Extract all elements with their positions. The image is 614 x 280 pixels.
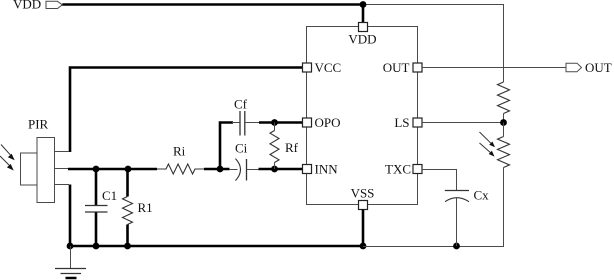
IC U1 body — [307, 27, 418, 205]
svg-text:OPO: OPO — [315, 115, 341, 130]
wire VDD pin drop — [362, 5, 365, 24]
wire pull-up to LS junction — [503, 114, 505, 123]
wire PIR bottom pin stub — [55, 184, 70, 186]
pin square VCC — [303, 63, 312, 72]
wire VCC rail (thick L from PIR to VCC) — [70, 68, 303, 153]
ground rail (thick) — [69, 245, 364, 248]
svg-text:VDD: VDD — [348, 32, 376, 47]
wire PIR bottom pin to ground rail — [69, 185, 72, 247]
wire branch up to Cf (thick) — [220, 123, 233, 170]
capacitor C1 — [85, 206, 108, 213]
light arrow 1 into LDR — [480, 132, 496, 147]
ground symbol — [55, 246, 86, 278]
svg-text:Cf: Cf — [234, 97, 248, 112]
svg-text:INN: INN — [315, 161, 339, 176]
sensor PIR window — [21, 153, 38, 185]
svg-text:VCC: VCC — [315, 60, 342, 75]
wire LS junction to LDR — [503, 123, 505, 137]
node C1 ground junction — [93, 243, 100, 250]
resistor Ri — [157, 164, 204, 174]
svg-text:PIR: PIR — [28, 117, 49, 132]
svg-text:TXC: TXC — [385, 161, 411, 176]
pin square INN — [303, 165, 312, 174]
wire PIR middle pin stub — [55, 168, 69, 170]
svg-text:C1: C1 — [102, 188, 117, 203]
IR arrow 1 into PIR — [1, 145, 15, 161]
wire signal line PIR to Ri (thick) — [68, 168, 157, 171]
pin square TXC — [413, 165, 422, 174]
svg-text:OUT: OUT — [585, 60, 612, 75]
svg-text:LS: LS — [394, 115, 409, 130]
svg-text:OUT: OUT — [383, 60, 410, 75]
connector VDD — [46, 1, 62, 8]
node Rf bottom junction — [271, 166, 278, 173]
capacitor Cx — [445, 191, 469, 202]
resistor Rf — [270, 131, 279, 163]
capacitor Cf — [240, 111, 245, 136]
wire VDD rail thin to right rail — [363, 4, 504, 6]
wire Rf bottom stub — [274, 163, 276, 170]
node Cx ground junction — [453, 243, 460, 250]
wire Cx to ground rail — [456, 198, 458, 246]
wire R1 top lead — [126, 169, 129, 197]
node R1 ground junction — [124, 243, 131, 250]
node LS junction — [500, 119, 507, 126]
wire right rail top — [503, 4, 505, 82]
wire Cf right lead — [245, 122, 259, 124]
node VDD junction — [360, 1, 367, 8]
wire TXC to Cx — [422, 170, 457, 191]
node Rf top junction — [271, 119, 278, 126]
ground rail thin extension — [363, 246, 504, 248]
node C1 top junction — [93, 166, 100, 173]
wire PIR top pin stub — [55, 151, 70, 153]
svg-text:Ci: Ci — [235, 141, 248, 156]
wire Ci left lead — [229, 169, 238, 171]
wire C1 bottom lead — [95, 213, 98, 247]
node VSS ground junction — [360, 243, 367, 250]
node PIR ground junction — [67, 243, 74, 250]
node Cf branch junction — [217, 166, 224, 173]
svg-text:Rf: Rf — [285, 140, 299, 155]
resistor R1 — [123, 197, 133, 225]
node R1 top junction — [125, 166, 132, 173]
pin square LS — [413, 118, 422, 127]
light arrow 2 into LDR — [480, 143, 495, 157]
wire R1 bottom lead — [126, 225, 129, 247]
wire Ri to Ci (thick) — [204, 168, 230, 171]
wire VDD rail (thick) — [62, 3, 364, 6]
wire Cf left lead — [232, 122, 240, 124]
pin square VSS — [359, 201, 368, 210]
IR arrow 2 into PIR — [0, 156, 14, 171]
svg-text:VDD: VDD — [13, 0, 41, 12]
wire Ci to INN (thick) — [259, 168, 303, 171]
svg-text:VSS: VSS — [351, 185, 375, 200]
wire Cf to OPO (thick) — [259, 121, 303, 124]
wire Rf top stub — [274, 123, 276, 131]
pin square OUT — [413, 63, 422, 72]
wire C1 top lead — [95, 169, 98, 205]
connector OUT — [566, 63, 582, 72]
pin square OPO — [303, 118, 312, 127]
photoresistor LDR — [498, 137, 510, 168]
svg-text:R1: R1 — [138, 200, 153, 215]
resistor pull-up (unlabeled) — [498, 82, 510, 113]
svg-text:Ri: Ri — [173, 143, 186, 158]
wire LDR to ground rail — [503, 168, 505, 247]
sensor PIR body — [37, 138, 55, 203]
pin square VDD — [359, 23, 368, 32]
wire Ci right lead — [247, 169, 260, 171]
wire LS pin to junction — [422, 122, 504, 124]
svg-text:Cx: Cx — [474, 188, 490, 203]
wire VSS to ground rail (thick) — [362, 210, 365, 247]
wire OUT pin to connector — [422, 67, 566, 69]
capacitor Ci — [236, 159, 247, 181]
